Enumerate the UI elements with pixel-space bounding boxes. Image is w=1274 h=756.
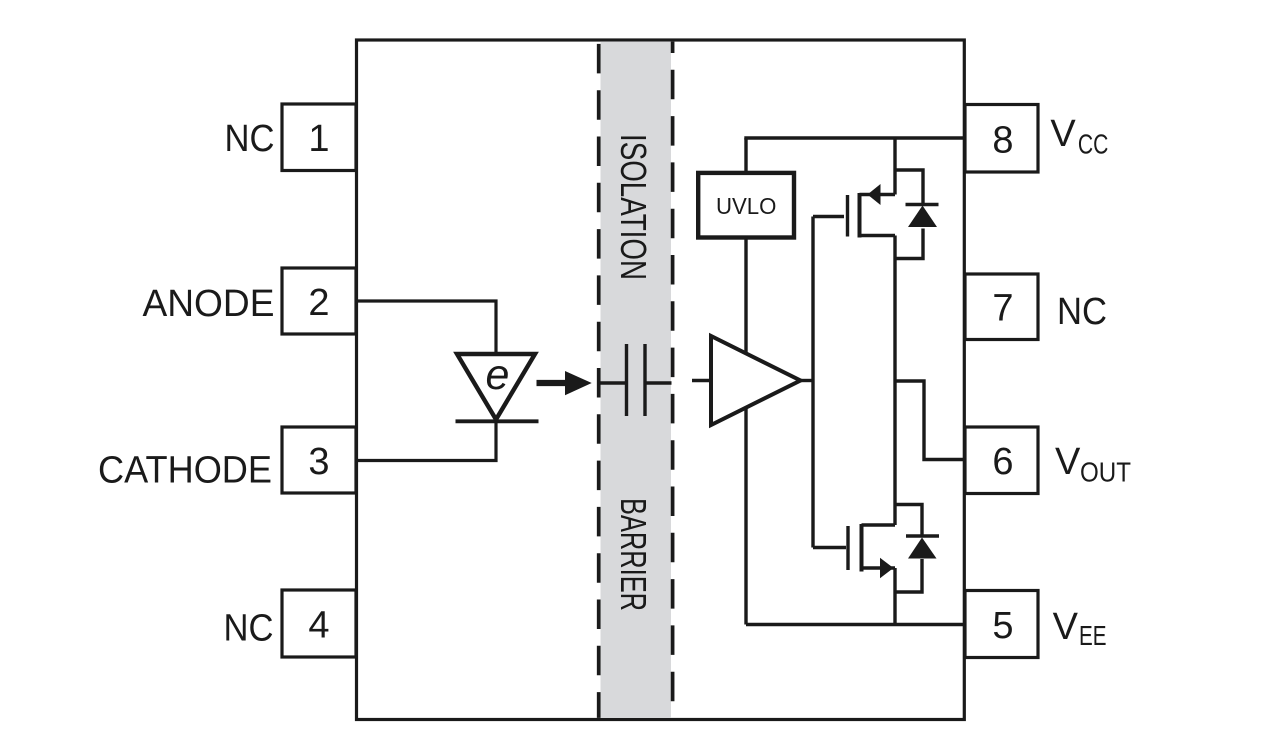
svg-text:5: 5 [992, 605, 1013, 647]
IC body [357, 40, 965, 720]
svg-text:6: 6 [992, 441, 1013, 483]
svg-text:CC: CC [1078, 128, 1109, 159]
svg-text:V: V [1055, 441, 1081, 483]
pin 2 box [282, 268, 356, 334]
isolation barrier dashed line left [597, 42, 601, 718]
svg-text:OUT: OUT [1080, 457, 1131, 488]
wire VEE rail [746, 623, 965, 626]
wire UVLO to VCC rail [744, 138, 747, 174]
svg-text:2: 2 [308, 282, 329, 324]
svg-text:CATHODE: CATHODE [98, 450, 272, 492]
diode D2 body diode of Q2 [895, 505, 939, 593]
wire VOUT node vertical [893, 236, 896, 526]
pin 4 box [282, 590, 356, 657]
pin 7 box [965, 274, 1038, 340]
svg-text:V: V [1053, 606, 1079, 648]
svg-text:ISOLATION: ISOLATION [613, 134, 654, 280]
svg-text:UVLO: UVLO [716, 193, 777, 219]
wire VCC rail [744, 136, 965, 139]
wire gate bus [811, 217, 814, 548]
wire VOUT branch to pin 6 [895, 381, 965, 460]
arrow coupling [537, 371, 592, 395]
svg-text:3: 3 [308, 441, 329, 483]
pin 1 box [282, 104, 356, 171]
svg-text:7: 7 [992, 288, 1013, 330]
svg-text:V: V [1050, 113, 1076, 155]
UVLO block [698, 173, 794, 238]
wire UVLO to VEE rail (behind buffer) [744, 239, 747, 625]
svg-text:8: 8 [992, 119, 1013, 161]
transistor Q2 lower MOSFET [813, 524, 895, 625]
svg-text:1: 1 [308, 118, 329, 160]
svg-text:NC: NC [224, 608, 274, 650]
capacitor C1 isolation caps [598, 344, 672, 416]
pin 6 box [965, 427, 1038, 494]
svg-text:NC: NC [1057, 291, 1107, 333]
pin 8 box [965, 105, 1038, 173]
diode D1 body diode of Q1 [895, 170, 939, 259]
pin 5 box [965, 591, 1038, 658]
svg-text:ANODE: ANODE [143, 283, 275, 325]
pin 3 box [282, 427, 356, 493]
svg-text:EE: EE [1079, 620, 1107, 651]
op-amp buffer U1 [692, 336, 814, 425]
isolation barrier strip [601, 42, 672, 718]
svg-text:4: 4 [308, 605, 329, 647]
transistor Q1 upper MOSFET [813, 138, 895, 238]
wire cathode pin3 to LED [356, 421, 496, 461]
svg-text:BARRIER: BARRIER [613, 498, 654, 611]
LED emitter E1 [456, 351, 539, 421]
svg-text:e: e [486, 351, 510, 399]
svg-text:NC: NC [225, 118, 275, 160]
isolation barrier dashed line right [671, 42, 675, 718]
wire anode pin2 to LED [356, 301, 496, 355]
